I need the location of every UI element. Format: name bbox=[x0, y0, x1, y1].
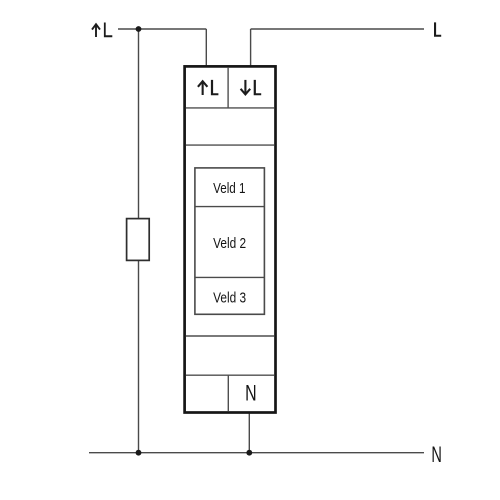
wire: drop into ↑L terminal of module bbox=[205, 29, 207, 68]
divider: upper body line bbox=[186, 144, 274, 146]
divider: below top terminal row bbox=[186, 107, 274, 109]
divider: between ↑L and ↓L terminal cells bbox=[227, 68, 229, 108]
wire: left vertical upper segment (junction to component) bbox=[138, 29, 140, 219]
svg-text:N: N bbox=[431, 442, 442, 467]
divider: bottom terminal cells bbox=[227, 375, 229, 411]
svg-text:N: N bbox=[245, 380, 257, 405]
svg-text:Veld 2: Veld 2 bbox=[213, 235, 246, 252]
wire: N terminal drop from module to bottom wire bbox=[248, 411, 250, 453]
node: junction dot top-left bbox=[136, 26, 142, 32]
svg-text:Veld 1: Veld 1 bbox=[213, 180, 245, 197]
wire: top-left horizontal from ↑L label to junction bbox=[118, 28, 206, 30]
field box Veld container bbox=[195, 168, 265, 314]
terminal label ↓L (down-arrow + L) bbox=[241, 80, 251, 95]
wire: top-right horizontal to L label bbox=[251, 28, 424, 30]
device module: outer case bbox=[185, 66, 276, 412]
wire: left vertical lower segment (component to bottom wire) bbox=[138, 260, 140, 453]
node: junction dot bottom N terminal bbox=[246, 450, 252, 456]
wire: riser from ↓L terminal of module bbox=[250, 29, 252, 68]
wire: bottom horizontal N conductor bbox=[89, 452, 424, 454]
svg-text:Veld 3: Veld 3 bbox=[213, 289, 246, 306]
divider: Veld 1 / Veld 2 bbox=[195, 206, 265, 208]
node: junction dot bottom-left bbox=[136, 450, 142, 456]
divider: Veld 2 / Veld 3 bbox=[195, 276, 265, 278]
net label ↑L (incoming switched line, up-arrow + L) bbox=[92, 24, 100, 37]
load (rectangle component in L feed) bbox=[127, 219, 150, 261]
terminal label ↑L (up-arrow + L) bbox=[198, 81, 208, 95]
divider: lower body line bbox=[186, 335, 274, 337]
net label L (line) bbox=[434, 22, 441, 36]
divider: above bottom terminal row bbox=[186, 374, 274, 376]
